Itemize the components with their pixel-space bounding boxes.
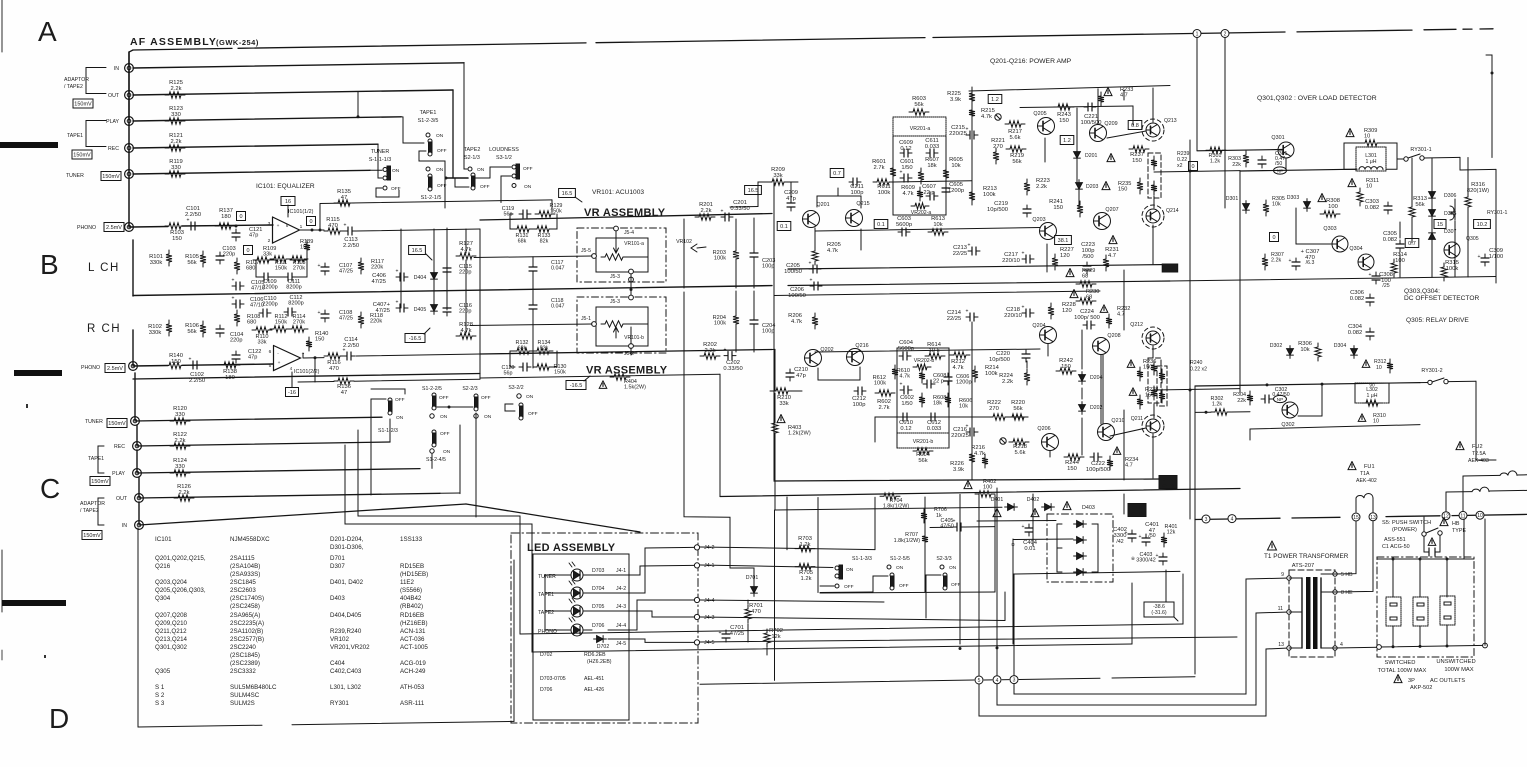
svg-text:+: + <box>1139 534 1142 540</box>
svg-text:+: + <box>719 630 722 636</box>
svg-text:D303: D303 <box>1287 195 1300 201</box>
svg-text:150: 150 <box>315 337 324 343</box>
svg-text:RD15EB: RD15EB <box>400 563 424 570</box>
bias box VR201-b <box>897 433 949 448</box>
svg-text:120: 120 <box>1060 253 1070 259</box>
label 0.1 a <box>777 222 791 231</box>
wire route lower sw b <box>345 445 532 652</box>
svg-text:T1A: T1A <box>1360 471 1370 477</box>
resistor R404 <box>599 381 607 389</box>
svg-text:1 μH: 1 μH <box>1366 393 1377 399</box>
label 150mV playR <box>90 477 110 486</box>
pa neg rail <box>720 489 1240 497</box>
spark cap C1 <box>1428 538 1436 546</box>
wire pa bottom verticals <box>1102 355 1104 424</box>
svg-text:D301-D306,: D301-D306, <box>330 544 364 551</box>
svg-text:2.5mV: 2.5mV <box>106 225 122 231</box>
node circle 4 <box>1228 515 1236 523</box>
svg-text:12k: 12k <box>771 634 780 640</box>
svg-text:47/25: 47/25 <box>375 308 390 314</box>
svg-text:150mV: 150mV <box>73 153 91 159</box>
svg-text:Q216: Q216 <box>855 343 868 349</box>
svg-text:/50: /50 <box>1275 161 1282 167</box>
svg-text:47/25: 47/25 <box>371 279 386 285</box>
svg-text:330: 330 <box>171 165 181 171</box>
svg-text:J4-5: J4-5 <box>704 640 715 646</box>
svg-text:+: + <box>966 424 969 430</box>
svg-text:56k: 56k <box>914 102 923 108</box>
transformer frame <box>1289 570 1335 657</box>
svg-text:100k: 100k <box>878 190 891 196</box>
svg-text:150mV: 150mV <box>74 102 92 108</box>
svg-text:1.2k: 1.2k <box>1212 401 1222 407</box>
wire j5-3 drop <box>630 274 632 298</box>
svg-text:D702: D702 <box>597 644 610 650</box>
svg-text:S1-1-3/3: S1-1-3/3 <box>852 556 872 562</box>
svg-text:Q215: Q215 <box>856 201 869 207</box>
wire sw2 play <box>431 454 433 468</box>
svg-text:1200p: 1200p <box>956 380 972 386</box>
svg-text:47: 47 <box>341 390 347 396</box>
svg-text:68k: 68k <box>518 238 527 244</box>
diode D307 <box>1429 230 1436 243</box>
svg-text:100/50: 100/50 <box>784 269 802 275</box>
svg-text:VR201-b: VR201-b <box>913 439 934 445</box>
svg-text:38.1: 38.1 <box>1058 238 1069 244</box>
svg-text:S3-2/2: S3-2/2 <box>508 385 523 391</box>
feedback wire R <box>298 381 334 384</box>
svg-text:TUNER: TUNER <box>371 149 390 155</box>
wire psu col 1190 <box>1189 171 1191 389</box>
svg-text:OFF: OFF <box>951 582 961 588</box>
wire play R bus <box>137 469 420 473</box>
feedback wire L <box>320 201 480 204</box>
switch S3-2/2 <box>517 394 521 398</box>
svg-text:/ TAPE2: / TAPE2 <box>80 508 99 514</box>
wire det rail <box>1170 277 1496 282</box>
svg-text:+: + <box>318 310 321 316</box>
wire q202 emitters <box>817 368 819 380</box>
switch S1-1 tuner <box>383 168 387 172</box>
svg-text:OUT: OUT <box>108 93 120 99</box>
svg-text:100k: 100k <box>1446 266 1459 272</box>
diode D202 <box>1079 402 1086 415</box>
svg-text:D: D <box>49 703 69 734</box>
pa supply rail 1 <box>788 265 1170 270</box>
svg-text:ADAPTOR: ADAPTOR <box>64 77 89 83</box>
svg-text:J4-5: J4-5 <box>616 641 626 647</box>
svg-text:1SS133: 1SS133 <box>400 536 423 543</box>
svg-text:+: + <box>810 278 813 284</box>
svg-text:(HD15EB): (HD15EB) <box>400 571 428 578</box>
wire det line R <box>1195 383 1420 386</box>
svg-text:0: 0 <box>309 219 312 225</box>
tx terminal 4 <box>1333 646 1337 650</box>
svg-text:D703: D703 <box>592 568 605 574</box>
wire L301 bypass <box>1344 143 1361 169</box>
wire bridge in b <box>1013 538 1073 541</box>
switch S3 loudness <box>512 165 516 169</box>
svg-text:3: 3 <box>268 221 271 227</box>
svg-text:+: + <box>1369 272 1372 278</box>
svg-text:RY301-1: RY301-1 <box>1487 210 1507 216</box>
svg-text:3P: 3P <box>1408 678 1415 684</box>
wire tx9 <box>1014 578 1289 694</box>
connector J5-4 <box>614 226 619 231</box>
pin0 box b <box>244 246 253 255</box>
top border wire <box>129 50 133 120</box>
svg-text:D307: D307 <box>330 563 345 570</box>
svg-text:S1-2-3/5: S1-2-3/5 <box>418 118 439 124</box>
svg-text:100/50: 100/50 <box>788 293 806 299</box>
fuse FU1 <box>1348 462 1356 470</box>
wire rec to tuner <box>378 144 382 178</box>
dark value 38.6 <box>1128 504 1146 517</box>
svg-text:Q303,Q304:: Q303,Q304: <box>1404 288 1440 295</box>
svg-text:ON: ON <box>524 184 532 190</box>
svg-text:D703-0705: D703-0705 <box>540 676 566 682</box>
wire q202 collector line <box>815 349 1040 352</box>
switch S1-2 tape1 upper <box>426 133 430 137</box>
svg-text:R CH: R CH <box>87 323 121 335</box>
boxed value -38.6 <box>1144 602 1174 617</box>
svg-text:D201: D201 <box>1085 153 1098 159</box>
svg-text:Q304: Q304 <box>155 595 171 602</box>
svg-text:220/10: 220/10 <box>1004 313 1022 319</box>
node circle 4b <box>993 676 1001 684</box>
label 16.5 eq <box>409 246 426 255</box>
svg-text:IC101(1/2): IC101(1/2) <box>288 209 314 215</box>
svg-text:IC101: EQUALIZER: IC101: EQUALIZER <box>256 183 315 190</box>
svg-text:0.033: 0.033 <box>927 426 942 432</box>
svg-text:ON: ON <box>436 167 444 173</box>
svg-text:56k: 56k <box>187 329 196 335</box>
wire q209 collector <box>1097 89 1099 125</box>
svg-text:270k: 270k <box>293 266 305 272</box>
transistor Q302 <box>1282 402 1298 418</box>
wire s3 loop <box>505 404 515 411</box>
input connector PHONO L <box>125 223 134 232</box>
svg-text:VR201,VR202: VR201,VR202 <box>330 644 370 651</box>
svg-text:10: 10 <box>1376 365 1382 371</box>
connector J5-5 <box>592 254 597 259</box>
svg-text:ACT-036: ACT-036 <box>400 636 425 643</box>
svg-text:PLAY: PLAY <box>106 119 119 125</box>
svg-text:4.7k: 4.7k <box>974 451 985 457</box>
svg-text:Q303: Q303 <box>1323 226 1336 232</box>
svg-text:56p: 56p <box>504 370 513 376</box>
svg-text:8200p: 8200p <box>288 301 304 307</box>
wire bottom 625 <box>520 624 1183 634</box>
svg-text:4: 4 <box>996 678 999 684</box>
fuse FU2 <box>1456 442 1464 450</box>
node circle 1 <box>1196 35 1198 151</box>
svg-text:11: 11 <box>1278 606 1283 612</box>
wire ovl line <box>1197 150 1282 151</box>
resistor R230 <box>1070 290 1078 298</box>
svg-text:Q201-Q216: POWER AMP: Q201-Q216: POWER AMP <box>990 58 1072 65</box>
svg-text:5.6k: 5.6k <box>1010 135 1021 141</box>
svg-text:VR201-a: VR201-a <box>910 126 931 132</box>
diode D201 <box>1074 149 1081 162</box>
switch S1-2 tape1 lower <box>426 167 430 171</box>
svg-text:3.9k: 3.9k <box>950 97 961 103</box>
wire feed x972 R <box>971 322 973 478</box>
wire IN bus <box>133 63 464 68</box>
svg-text:/42: /42 <box>1116 539 1123 545</box>
svg-text:2.2k: 2.2k <box>1036 184 1047 190</box>
wire fb drop L <box>319 204 321 231</box>
svg-text:100p: 100p <box>1082 248 1095 254</box>
svg-text:+: + <box>277 224 280 229</box>
svg-text:-38.6: -38.6 <box>1165 266 1176 271</box>
svg-text:AEK-402: AEK-402 <box>1356 478 1377 484</box>
svg-text:VR102: VR102 <box>330 636 349 643</box>
transformer core <box>1306 577 1311 649</box>
resistor R308 <box>1318 194 1326 202</box>
wire c117 col <box>532 257 534 263</box>
wire to speaker <box>1459 157 1461 170</box>
wire r131 loop <box>510 214 515 229</box>
tx terminal 13 <box>1287 646 1291 650</box>
wire J4-5 line <box>700 637 1237 642</box>
svg-text:IN: IN <box>114 66 119 72</box>
wire bottom bus 680 <box>700 680 974 684</box>
svg-text:OFF: OFF <box>844 584 854 590</box>
svg-text:(2SC1845): (2SC1845) <box>230 652 260 659</box>
svg-text:ON: ON <box>526 394 534 400</box>
led D706 <box>571 624 583 636</box>
svg-text:15: 15 <box>1353 515 1359 521</box>
svg-text:Q212: Q212 <box>1130 322 1143 328</box>
svg-text:SWITCHED: SWITCHED <box>1385 660 1416 666</box>
svg-text:680: 680 <box>247 320 256 326</box>
svg-text:Q302: Q302 <box>1281 422 1294 428</box>
svg-text:220p: 220p <box>230 338 242 344</box>
emitter res box R240 <box>1157 366 1167 406</box>
input connector IN <box>125 64 134 73</box>
svg-text:ON: ON <box>896 565 904 571</box>
wire tuner hook <box>376 188 399 197</box>
svg-text:OFF: OFF <box>528 411 538 417</box>
svg-text:0.047: 0.047 <box>551 303 565 309</box>
svg-text:2.7k: 2.7k <box>874 165 885 171</box>
svg-text:+: + <box>232 278 235 284</box>
svg-text:33k: 33k <box>779 401 788 407</box>
svg-text:0.082: 0.082 <box>1365 205 1380 211</box>
svg-text:S 3: S 3 <box>155 700 165 707</box>
svg-text:PHONO: PHONO <box>77 225 96 231</box>
wire hooks bus <box>820 592 995 593</box>
svg-text:TAPE1: TAPE1 <box>88 456 104 462</box>
pa mid rail <box>774 291 1100 296</box>
svg-text:100k: 100k <box>874 381 886 387</box>
label 1.2 a <box>988 95 1002 104</box>
resistor R309 <box>1346 129 1354 137</box>
svg-text:RD16EB: RD16EB <box>400 612 424 619</box>
op-amp IC101(2/2) <box>274 346 301 371</box>
svg-text:33k: 33k <box>263 252 272 258</box>
connector column wire <box>128 52 130 227</box>
svg-text:+: + <box>278 361 281 366</box>
pot VR101-b <box>601 321 627 327</box>
resistor R232 <box>1100 305 1108 313</box>
node circle 3 <box>1202 515 1210 523</box>
switch S1-2-4/5 <box>432 430 436 434</box>
wire bottom 644 <box>532 644 1132 652</box>
warn T1 <box>1268 541 1277 550</box>
svg-text:T2.5A: T2.5A <box>1472 451 1486 457</box>
wire tx13 <box>979 648 1289 716</box>
svg-text:1/100: 1/100 <box>1489 254 1504 260</box>
svg-text:47: 47 <box>341 195 347 201</box>
svg-text:56k: 56k <box>918 458 927 464</box>
svg-text:ON: ON <box>484 414 492 420</box>
dark value -38.6 <box>1162 264 1178 272</box>
svg-text:TAPE1: TAPE1 <box>420 110 437 116</box>
svg-text:18k: 18k <box>933 401 942 407</box>
svg-text:OFF: OFF <box>437 148 447 154</box>
svg-text:S1-1-2/3: S1-1-2/3 <box>378 428 398 434</box>
svg-text:0.12: 0.12 <box>900 146 911 152</box>
wire q215 col <box>860 229 862 250</box>
svg-text:Q301,Q302 : OVER LOAD DETECTOR: Q301,Q302 : OVER LOAD DETECTOR <box>1257 95 1377 102</box>
transformer secondary <box>1320 578 1322 648</box>
svg-text:S1-2-5/5: S1-2-5/5 <box>890 556 910 562</box>
svg-text:+: + <box>189 357 192 363</box>
svg-text:x2: x2 <box>1177 163 1183 169</box>
svg-text:0.082: 0.082 <box>1348 330 1363 336</box>
wire rec R bus <box>137 442 390 446</box>
wire psu col 925 <box>924 497 926 532</box>
svg-text:/ TAPE2: / TAPE2 <box>64 84 83 90</box>
svg-text:S2-2/3: S2-2/3 <box>462 386 477 392</box>
svg-text:+: + <box>1156 553 1159 559</box>
svg-text:100W MAX: 100W MAX <box>1444 667 1473 673</box>
wire q210 to q211 <box>1110 428 1146 436</box>
svg-text:+: + <box>232 296 235 302</box>
svg-text:56k: 56k <box>1012 159 1021 165</box>
phi node R <box>1000 438 1006 444</box>
svg-text:11E2: 11E2 <box>400 579 415 586</box>
inductor L301 <box>1356 147 1386 171</box>
svg-text:150: 150 <box>1067 466 1077 472</box>
svg-text:10: 10 <box>1477 513 1483 519</box>
wire out L cont <box>356 229 480 231</box>
svg-text:1: 1 <box>300 224 303 230</box>
svg-text:D403: D403 <box>1082 505 1095 511</box>
svg-text:2.2k: 2.2k <box>171 86 182 92</box>
svg-text:-16.5: -16.5 <box>409 336 422 342</box>
resistor R312 <box>1362 360 1370 368</box>
wire q201 emitters <box>816 196 818 207</box>
svg-text:0: 0 <box>1191 164 1194 170</box>
wire pa input L <box>730 206 758 209</box>
svg-text:R240: R240 <box>1190 360 1203 366</box>
svg-text:3: 3 <box>1205 517 1208 523</box>
svg-text:PHONO: PHONO <box>81 365 100 371</box>
svg-text:Q209,Q210: Q209,Q210 <box>155 620 188 627</box>
svg-text:Q305: RELAY DRIVE: Q305: RELAY DRIVE <box>1406 317 1469 324</box>
left column wire lower <box>132 330 134 366</box>
svg-text:J4-1: J4-1 <box>616 568 626 574</box>
wire J4-2 line <box>700 547 875 550</box>
svg-text:+: + <box>1022 305 1025 311</box>
wire opamp out R <box>303 357 324 359</box>
svg-text:/500: /500 <box>1082 254 1093 260</box>
svg-text:100p: 100p <box>762 264 774 270</box>
svg-text:ON: ON <box>846 567 854 573</box>
svg-text:ACH-249: ACH-249 <box>400 668 426 675</box>
svg-text:OFF: OFF <box>480 184 490 190</box>
wire psu col 995 <box>994 495 996 592</box>
svg-text:2: 2 <box>1224 32 1227 38</box>
svg-text:L301, L302: L301, L302 <box>330 684 362 691</box>
svg-text:+: + <box>1125 530 1128 536</box>
svg-text:VR ASSEMBLY: VR ASSEMBLY <box>586 365 668 377</box>
wire J4-1 line <box>700 565 833 568</box>
connector J4-4 <box>694 597 699 602</box>
svg-text:6: 6 <box>269 349 272 355</box>
svg-text:13: 13 <box>1370 515 1376 521</box>
diode D204 <box>1079 372 1086 385</box>
svg-text:9: 9 <box>1281 572 1284 578</box>
svg-text:2200p: 2200p <box>262 285 278 291</box>
svg-text:OFF: OFF <box>523 166 533 172</box>
wire sw2 left loop <box>371 399 386 495</box>
node circle 5 <box>975 676 983 684</box>
diode D702 <box>594 636 607 643</box>
led wires <box>545 574 567 576</box>
wire R rail lower <box>133 374 480 380</box>
svg-text:270k: 270k <box>293 320 305 326</box>
svg-text:ON: ON <box>949 565 957 571</box>
wire r310 loop <box>1354 384 1356 403</box>
svg-text:D704: D704 <box>592 586 605 592</box>
wire OUT bus <box>133 90 453 95</box>
svg-text:56k: 56k <box>187 260 196 266</box>
svg-text:82k: 82k <box>540 238 549 244</box>
connector J5-3b <box>629 295 634 300</box>
svg-text:1: 1 <box>1196 32 1199 38</box>
svg-text:FU1: FU1 <box>1364 464 1375 470</box>
svg-text:ASR-111: ASR-111 <box>400 700 425 707</box>
svg-text:22/25: 22/25 <box>953 251 968 257</box>
svg-text:100p/ 500: 100p/ 500 <box>1074 315 1100 321</box>
svg-text:ACG-019: ACG-019 <box>400 660 426 667</box>
svg-text:180: 180 <box>221 214 231 220</box>
tx terminal 9 <box>1287 576 1291 580</box>
svg-text:S1-2-2/5: S1-2-2/5 <box>422 386 442 392</box>
wire relay return <box>1476 381 1496 460</box>
svg-text:VR ASSEMBLY: VR ASSEMBLY <box>584 207 666 219</box>
wire loudness tap <box>501 176 511 203</box>
svg-text:Q208: Q208 <box>1107 333 1120 339</box>
label 2.5mV phono L <box>104 223 124 232</box>
resistor R103 <box>165 223 185 229</box>
svg-text:3.9k: 3.9k <box>953 467 964 473</box>
svg-text:220k: 220k <box>370 319 382 325</box>
svg-text:D701: D701 <box>330 555 345 562</box>
wire r313 col <box>1411 158 1413 204</box>
svg-text:5: 5 <box>978 678 981 684</box>
wire s125 hook <box>873 576 888 592</box>
wire tape2 hook <box>455 178 469 187</box>
wire t4 <box>1335 646 1379 649</box>
diode D306 <box>1429 189 1436 202</box>
wire right col <box>1194 386 1196 674</box>
wire vr mid rail R <box>480 350 772 355</box>
